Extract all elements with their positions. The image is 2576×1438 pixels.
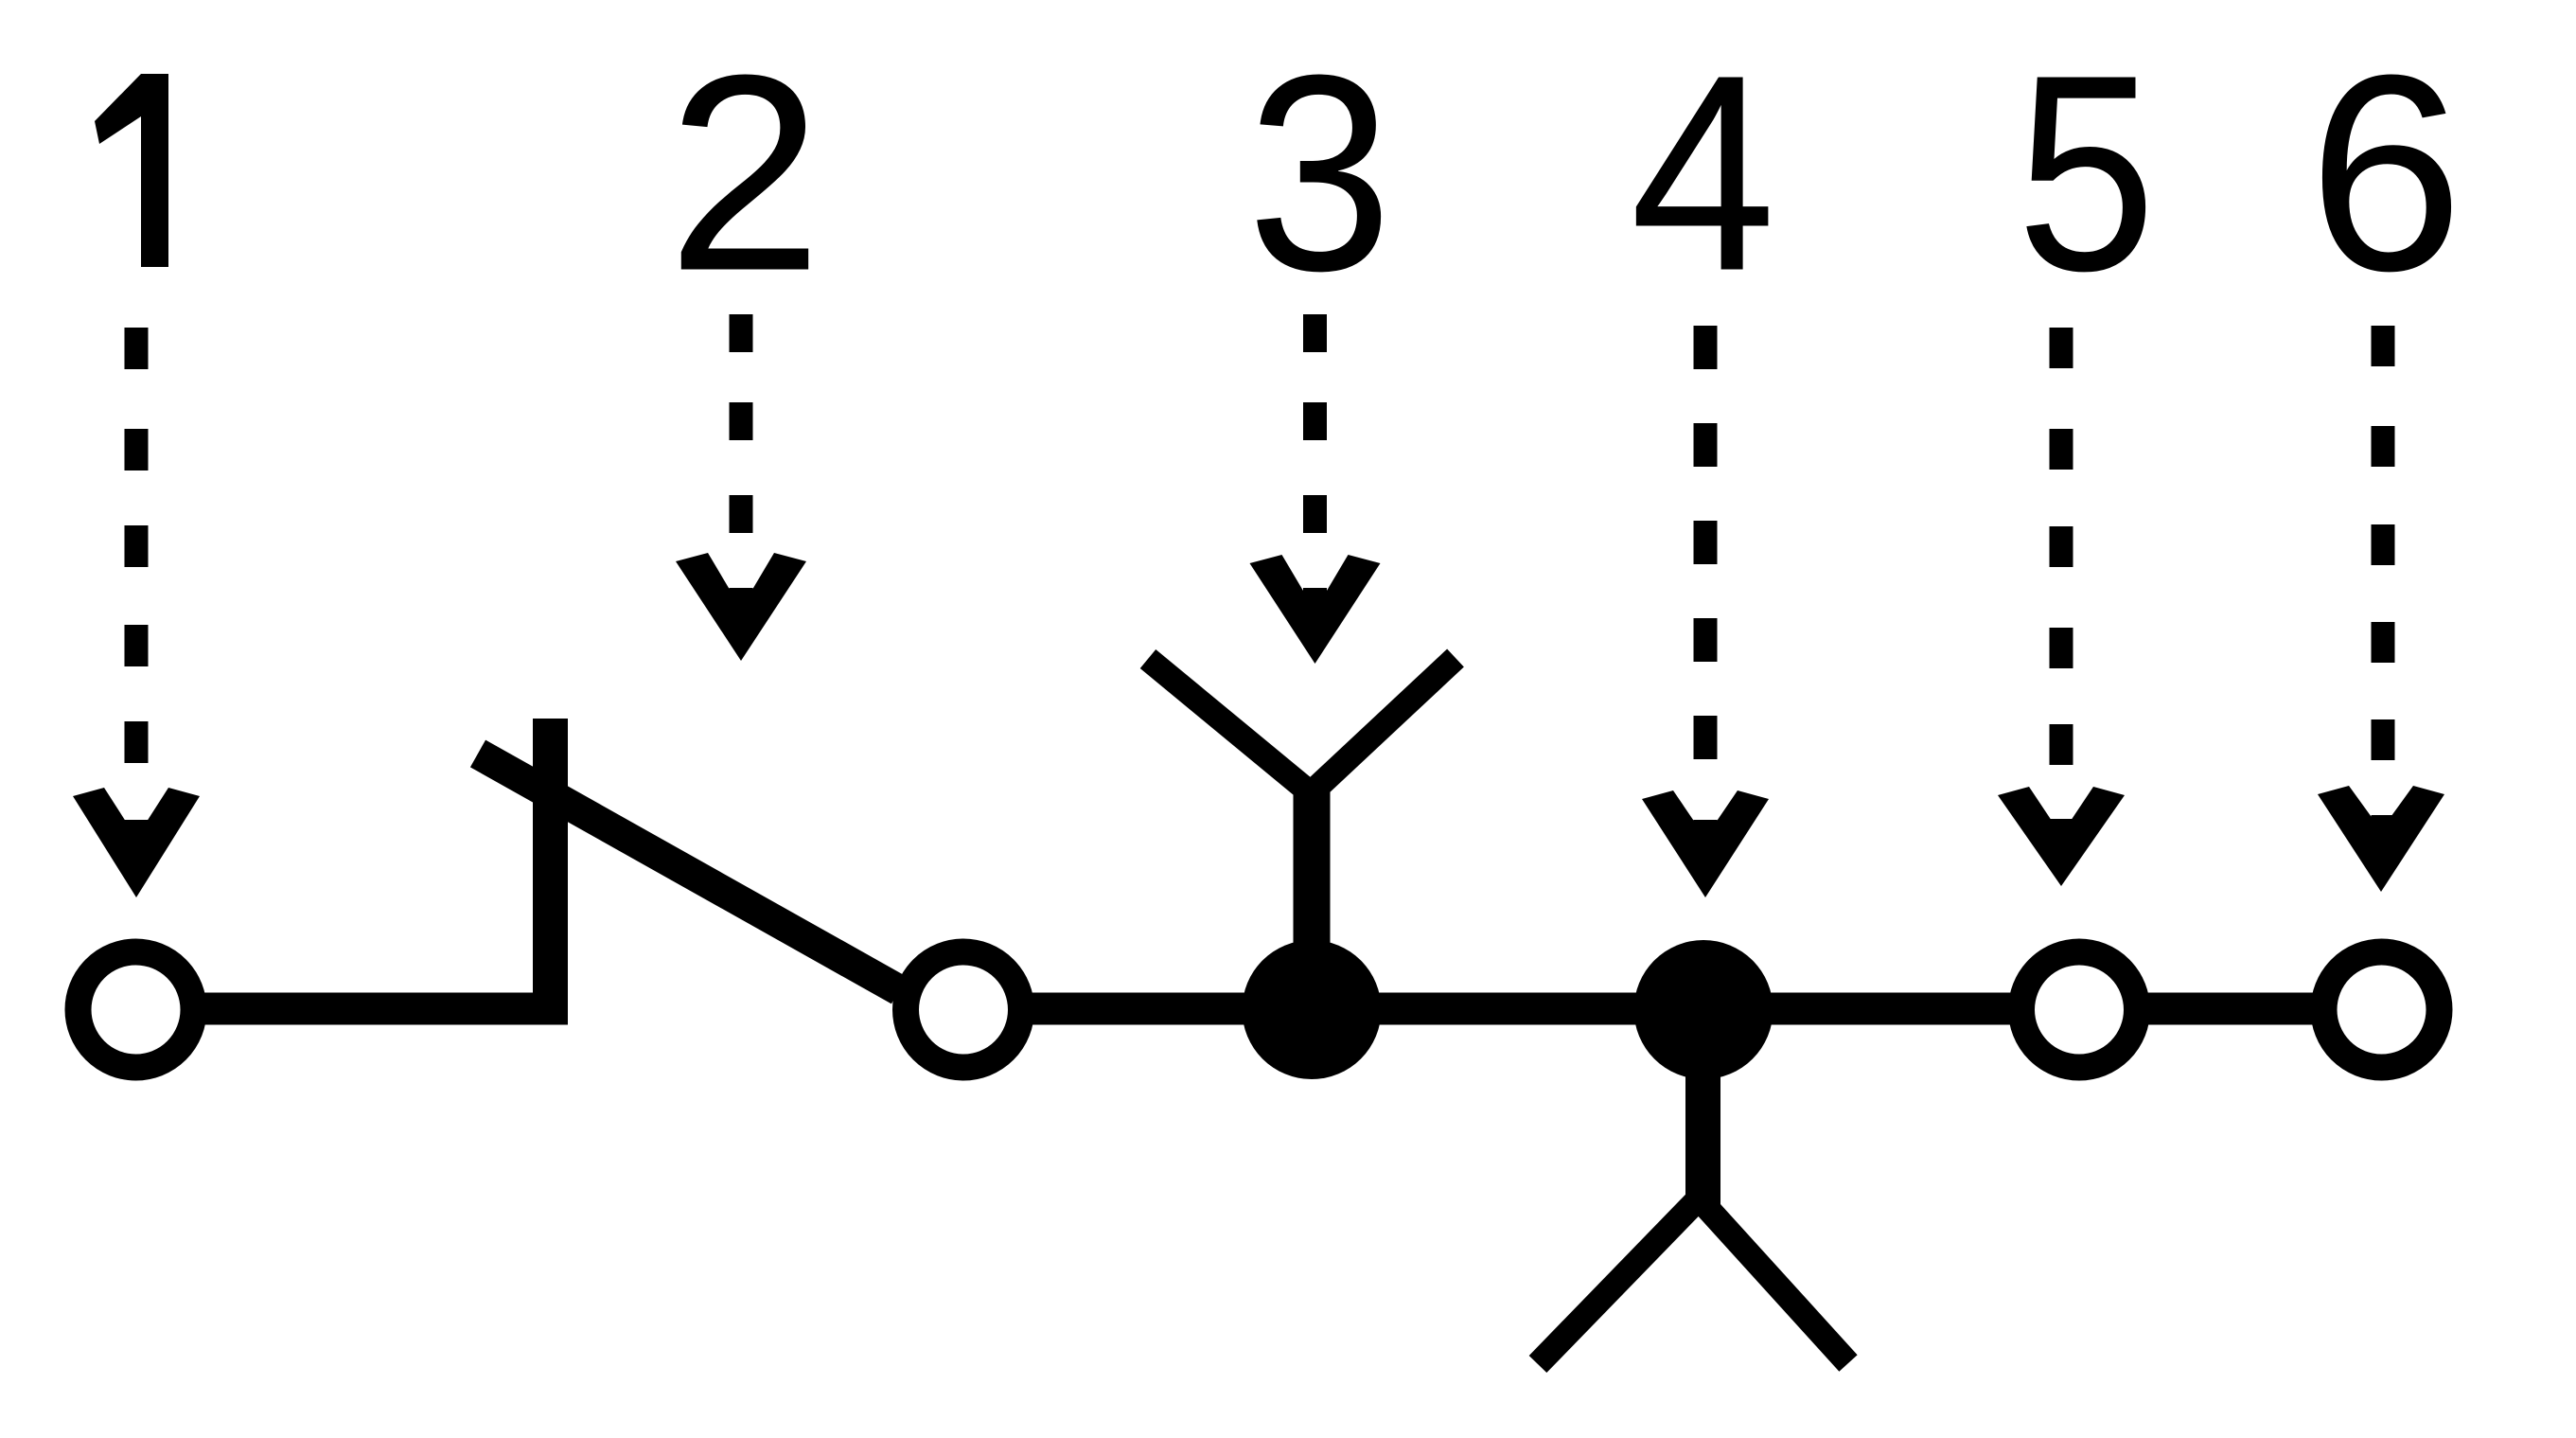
svg-text:6: 6 — [2308, 17, 2463, 329]
svg-text:2: 2 — [667, 17, 822, 329]
svg-text:3: 3 — [1247, 17, 1393, 329]
svg-text:5: 5 — [2017, 17, 2157, 329]
svg-text:4: 4 — [1631, 17, 1776, 329]
